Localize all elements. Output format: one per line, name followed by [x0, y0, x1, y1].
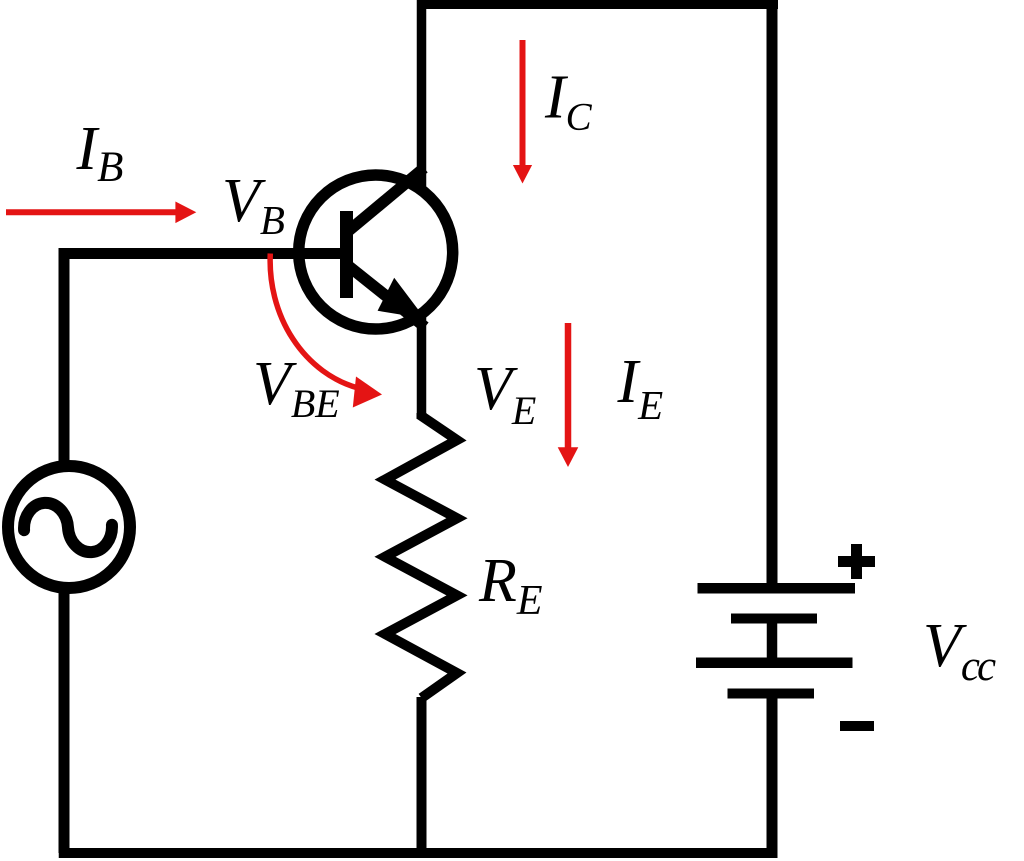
transistor Q1 circle	[299, 175, 453, 329]
current arrow IE	[565, 323, 572, 449]
battery Vcc plate 4 short	[728, 689, 815, 699]
wire right vertical (battery to bottom)	[767, 694, 778, 858]
transistor Q1 emitter arrowhead	[378, 278, 425, 319]
battery Vcc mid stub	[767, 620, 778, 660]
wire base horizontal	[59, 248, 350, 259]
wire resistor to bottom	[417, 697, 427, 858]
AC source V1 circle	[8, 466, 130, 588]
transistor Q1 collector stroke	[346, 168, 424, 233]
battery Vcc plate 3 long	[696, 658, 853, 669]
wire left vertical (source to bottom)	[59, 592, 70, 853]
battery Vcc plate 1 long	[698, 583, 856, 594]
wire top horizontal (collector to Vcc)	[417, 0, 778, 9]
battery Vcc plate 2 short	[731, 614, 817, 624]
wire bottom horizontal	[59, 848, 778, 858]
resistor RE zigzag	[385, 413, 457, 698]
battery minus sign	[840, 721, 874, 731]
battery plus sign	[838, 556, 875, 567]
wire right vertical (Vcc top)	[767, 0, 778, 588]
AC source V1 sine	[22, 499, 113, 556]
wire collector vertical	[417, 0, 427, 190]
transistor Q1 base bar	[340, 211, 353, 298]
wire left vertical (base node to source)	[59, 248, 70, 462]
VBE arc arrow	[270, 254, 358, 389]
wire emitter vertical	[417, 310, 427, 419]
transistor Q1 emitter stroke	[346, 264, 425, 327]
current arrow IB	[6, 209, 178, 215]
current arrow IC	[520, 40, 526, 167]
